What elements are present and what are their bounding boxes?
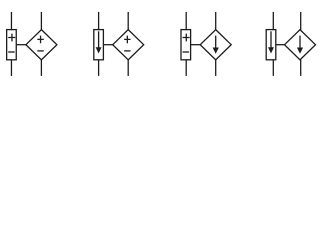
wire: top lead of sensing element 1 [10,12,12,30]
wire: top lead of dependent source 3 [215,12,217,30]
controlling-voltage polarity mark "&#8722;" (sensor 1) [8,51,15,53]
wire: top lead of dependent source 2 [127,12,129,30]
source current arrow (source 4, pointing down) [299,36,301,49]
wire: top lead of dependent source 4 [300,12,302,30]
wire: bottom lead of dependent source 2 [127,60,129,76]
sensing-element rectangle 1 [7,30,17,60]
source polarity mark "+" (source 1) [37,36,43,44]
wire: bottom lead of sensing element 1 [10,60,12,76]
source current arrowhead (source 4) [297,48,303,54]
dependent-source diamond 4 [285,30,316,60]
wire: stub from sensing element 3 to dependent source 3 [191,44,202,46]
wire: stub from sensing element 2 to dependent source 2 [103,44,113,46]
source polarity mark "+" (source 2) [124,36,130,44]
wire: bottom lead of dependent source 3 [215,60,217,76]
wire: top lead of sensing element 3 [185,12,187,30]
dependent-source diamond 2 [113,30,144,60]
controlling-current arrow (sensor 2, pointing down) [98,31,100,48]
controlling-current arrowhead (sensor 2) [96,47,102,53]
sensing-element rectangle 2 [94,30,104,60]
wire: top lead of sensing element 2 [98,12,100,30]
wire: bottom lead of dependent source 4 [300,60,302,76]
symbol group 3: VCCS (voltage-controlled current source) [181,12,231,76]
wire: top lead of dependent source 1 [40,12,42,30]
source polarity mark "&#8722;" (source 1) [37,50,43,52]
wire: top lead of sensing element 4 [272,12,274,30]
sensing-element rectangle 4 [266,30,276,60]
symbol group 1: VCVS (voltage-controlled voltage source) [7,12,57,76]
controlling-current arrow (sensor 4, pointing down) [270,31,272,48]
symbol group 2: CCVS (current-controlled voltage source) [94,12,144,76]
source polarity mark "&#8722;" (source 2) [124,50,130,52]
dependent-source diamond 1 [26,30,57,60]
wire: stub from sensing element 1 to dependent source 1 [16,44,27,46]
controlling-voltage polarity mark "+" (sensor 3) [183,34,190,42]
dependent-source diamond 3 [200,30,231,60]
wire: stub from sensing element 4 to dependent source 4 [276,44,286,46]
controlling-voltage polarity mark "+" (sensor 1) [8,34,15,42]
sensing-element rectangle 3 [181,30,191,60]
source current arrowhead (source 3) [213,48,219,54]
wire: bottom lead of dependent source 1 [40,60,42,76]
wire: bottom lead of sensing element 2 [98,60,100,76]
controlling-current arrowhead (sensor 4) [268,47,274,53]
wire: bottom lead of sensing element 3 [185,60,187,76]
source current arrow (source 3, pointing down) [215,36,217,49]
controlling-voltage polarity mark "&#8722;" (sensor 3) [183,51,190,53]
wire: bottom lead of sensing element 4 [272,60,274,76]
symbol group 4: CCCS (current-controlled current source) [266,12,315,76]
